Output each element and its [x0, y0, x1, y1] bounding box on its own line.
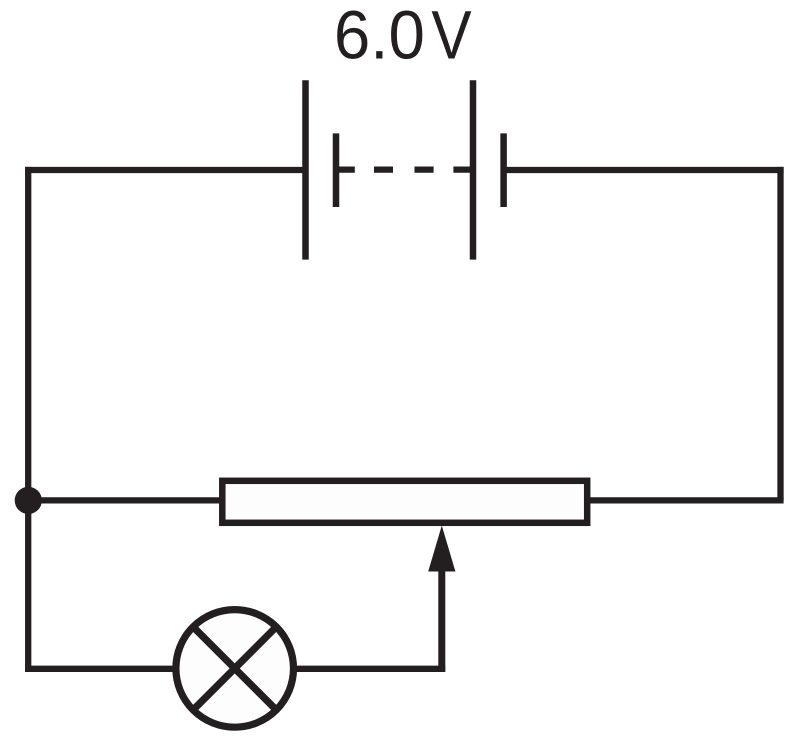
- node junction dot: [15, 487, 42, 514]
- battery B1 (6.0 V, two cells with dashed link): [306, 80, 504, 259]
- battery right cell long plate (+): [470, 80, 477, 259]
- wire bottom horizontal: [25, 666, 445, 672]
- wire potentiometer left lead: [25, 497, 221, 503]
- svg-text:V: V: [431, 0, 471, 74]
- wiper arrowhead: [428, 526, 455, 572]
- lamp L1 cross stroke 2: [193, 627, 276, 710]
- battery left cell short plate (-): [333, 133, 340, 207]
- potentiometer R1 body: [222, 481, 587, 523]
- lamp L1 circle: [176, 610, 294, 728]
- svg-text:6.0: 6.0: [334, 0, 425, 74]
- battery left cell long plate (+): [302, 80, 309, 259]
- lamp L1 cross stroke 1: [193, 627, 276, 710]
- wire top-left horizontal: [25, 167, 306, 173]
- wire potentiometer right lead: [588, 497, 784, 503]
- battery dashed link segment 3: [415, 166, 434, 172]
- wire top-right horizontal: [503, 167, 784, 173]
- wire left vertical: [25, 167, 31, 672]
- battery dashed link segment 4: [453, 166, 473, 172]
- battery right cell short plate (-): [500, 133, 507, 207]
- battery dashed link segment 1: [336, 166, 355, 172]
- wire right vertical: [777, 167, 783, 501]
- battery dashed link segment 2: [374, 166, 393, 172]
- wiper arrow stem: [438, 567, 445, 672]
